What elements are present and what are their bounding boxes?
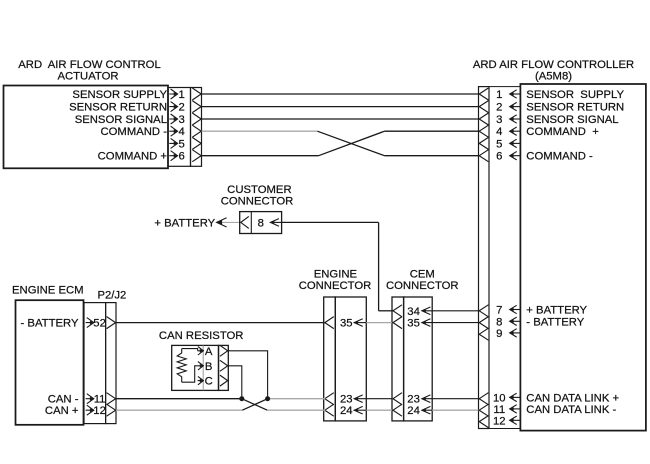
resistor pin A arrow — [198, 347, 204, 355]
CEM pin 34 arrow (tail to controller) — [422, 310, 479, 312]
svg-text:SENSOR SIGNAL: SENSOR SIGNAL — [75, 114, 167, 126]
controller pin 3 arrow — [510, 118, 520, 120]
svg-text:CAN RESISTOR: CAN RESISTOR — [159, 330, 244, 342]
ECM pin-number cell — [84, 303, 106, 424]
actuator connector chevron cell — [191, 88, 202, 167]
resistor pin B arrow — [198, 362, 204, 370]
ECM pin 52 arrow — [86, 318, 94, 328]
actuator pin-number cell — [168, 88, 191, 167]
controller pin 7 chevron — [479, 305, 488, 317]
wire ECM11 CAN- to junction — [116, 398, 242, 400]
actuator body box — [4, 86, 169, 169]
svg-text:35: 35 — [407, 318, 420, 330]
svg-text:ENGINE ECM: ENGINE ECM — [12, 284, 84, 296]
svg-text:12: 12 — [93, 405, 106, 417]
svg-text:B: B — [205, 361, 213, 373]
controller pin 11 chevron — [479, 404, 488, 416]
svg-text:(A5M8): (A5M8) — [535, 70, 572, 82]
wire crossover diagonal down — [317, 131, 384, 156]
CEM pin 23 arrow (tail to controller) — [422, 398, 479, 400]
actuator pin 6 arrow — [169, 151, 177, 161]
controller pin 6 arrow — [510, 155, 520, 157]
wire ECM12 CAN+ (gray) — [116, 409, 242, 411]
svg-text:- BATTERY: - BATTERY — [526, 316, 584, 328]
controller pin 7 arrow — [510, 309, 520, 311]
svg-text:6: 6 — [496, 151, 502, 163]
wire to engine connector pin24 (gray) — [267, 409, 325, 411]
svg-text:12: 12 — [493, 415, 506, 427]
wire ECM52 - battery — [116, 322, 325, 324]
engine connector chevron cell — [324, 297, 336, 421]
svg-text:3: 3 — [496, 114, 502, 126]
svg-text:7: 7 — [496, 305, 502, 317]
CEM connector pin 35 chevron — [393, 317, 402, 329]
controller pin 2 chevron — [479, 101, 488, 113]
controller pin 5 arrow — [510, 142, 520, 144]
wire engine24 to CEM24 (gray) — [366, 409, 392, 411]
CAN resistor chevron cell — [219, 345, 229, 390]
arrow to + BATTERY label (gray tail) — [217, 221, 240, 223]
junction dot CAN node 1 — [239, 396, 244, 401]
customer pin 8 arrow — [270, 221, 281, 223]
svg-text:SENSOR RETURN: SENSOR RETURN — [526, 102, 624, 114]
ECM pin 12 chevron — [107, 404, 116, 416]
customer connector divider — [250, 212, 252, 234]
controller pin 1 chevron — [479, 88, 488, 100]
svg-text:11: 11 — [94, 394, 106, 406]
svg-text:P2/J2: P2/J2 — [97, 290, 126, 302]
actuator pin 3 chevron — [192, 113, 201, 125]
resistor pin C arrow — [198, 376, 204, 384]
svg-text:4: 4 — [496, 126, 502, 138]
wire CAN crossover diagonal down — [242, 399, 267, 411]
engine connector pin 35 arrow — [354, 322, 366, 324]
svg-text:COMMAND +: COMMAND + — [526, 126, 599, 138]
engine connector pin 24 arrow — [354, 409, 366, 411]
actuator pin 4 arrow — [169, 126, 177, 136]
CAN resistor body box — [172, 345, 219, 390]
svg-text:CONNECTOR: CONNECTOR — [299, 280, 372, 292]
actuator pin 3 arrow — [169, 114, 177, 124]
CEM pin 35 arrow (tail to controller) — [422, 322, 479, 324]
resistor pin B chevron — [220, 360, 228, 371]
svg-text:ARD AIR FLOW CONTROL: ARD AIR FLOW CONTROL — [18, 59, 160, 71]
svg-text:CEM: CEM — [410, 269, 435, 281]
engine connector pin 35 chevron — [325, 317, 334, 329]
controller pin 3 chevron — [479, 113, 488, 125]
resistor element zigzag — [177, 349, 186, 383]
resistor pin A chevron — [220, 345, 228, 356]
resistor pin C chevron — [220, 375, 228, 386]
svg-text:A: A — [205, 346, 213, 358]
actuator pin 2 chevron — [192, 101, 201, 113]
svg-text:11: 11 — [493, 404, 505, 416]
svg-text:COMMAND -: COMMAND - — [526, 151, 593, 163]
svg-text:6: 6 — [179, 151, 185, 163]
ECM pin 11 chevron — [107, 393, 116, 405]
controller pin 12 chevron — [479, 416, 488, 428]
svg-text:2: 2 — [496, 102, 502, 114]
wire customer pin8 vertical drop — [378, 222, 380, 310]
engine connector pin 23 arrow (tail to CEM) — [354, 398, 392, 400]
svg-text:+ BATTERY: + BATTERY — [154, 218, 215, 230]
svg-text:1: 1 — [496, 89, 502, 101]
svg-text:23: 23 — [407, 394, 420, 406]
svg-text:CONNECTOR: CONNECTOR — [386, 280, 459, 292]
controller pin 12 arrow — [510, 419, 520, 421]
controller pin 9 chevron — [479, 328, 488, 340]
controller body box — [520, 84, 646, 431]
wire pin2 sensor return — [202, 106, 479, 108]
engine connector number cell — [335, 297, 366, 421]
wire engine35 to CEM35 (gray) — [366, 322, 392, 324]
ECM body box — [16, 300, 84, 425]
svg-text:3: 3 — [179, 114, 185, 126]
svg-text:9: 9 — [496, 328, 502, 340]
svg-text:52: 52 — [93, 318, 106, 330]
svg-text:C: C — [205, 376, 213, 388]
controller pin 8 arrow — [510, 320, 520, 322]
CEM connector pin 34 chevron — [393, 305, 402, 317]
svg-text:SENSOR SUPPLY: SENSOR SUPPLY — [72, 89, 167, 101]
controller pin 5 chevron — [479, 137, 488, 149]
svg-text:CAN DATA LINK -: CAN DATA LINK - — [526, 404, 616, 416]
svg-text:ENGINE: ENGINE — [314, 269, 358, 281]
svg-text:2: 2 — [179, 102, 185, 114]
svg-text:5: 5 — [179, 138, 185, 150]
svg-text:10: 10 — [493, 392, 506, 404]
resistor bottom lead to pin B — [182, 366, 198, 382]
ECM pin 52 chevron — [107, 317, 116, 329]
svg-text:SENSOR SUPPLY: SENSOR SUPPLY — [526, 89, 624, 101]
controller pin 9 arrow — [510, 332, 520, 334]
wire crossover diagonal up — [319, 131, 385, 156]
wire junction to engine pin23 (gray) — [268, 398, 326, 400]
CAN resistor inner divider (gray) — [202, 345, 204, 390]
svg-text:ARD AIR FLOW CONTROLLER: ARD AIR FLOW CONTROLLER — [473, 59, 634, 71]
resistor top lead to pin A — [182, 349, 198, 351]
engine connector pin 24 chevron — [325, 404, 334, 416]
actuator pin 1 chevron — [192, 88, 201, 100]
junction dot CAN node 2 — [265, 396, 270, 401]
svg-text:1: 1 — [179, 89, 185, 101]
svg-text:34: 34 — [407, 306, 420, 318]
controller pin 11 arrow — [510, 408, 520, 410]
wire CAN crossover diagonal up — [242, 399, 267, 411]
actuator pin 4 chevron — [192, 125, 201, 137]
controller pin-number cell — [489, 87, 520, 429]
CEM pin 24 arrow — [422, 409, 432, 411]
svg-text:24: 24 — [340, 405, 353, 417]
ECM pin 12 arrow — [86, 405, 94, 415]
controller pin 4 chevron — [479, 125, 488, 137]
svg-text:CONNECTOR: CONNECTOR — [221, 195, 294, 207]
svg-text:COMMAND -: COMMAND - — [100, 126, 167, 138]
actuator pin 6 chevron — [192, 150, 201, 162]
svg-text:CAN DATA LINK +: CAN DATA LINK + — [526, 392, 619, 404]
svg-text:COMMAND +: COMMAND + — [98, 151, 168, 163]
customer connector box — [240, 212, 282, 234]
svg-text:8: 8 — [496, 316, 502, 328]
svg-text:CAN +: CAN + — [45, 405, 79, 417]
ECM pin 11 arrow — [86, 394, 94, 404]
wire resistor B down to CAN node — [228, 366, 242, 399]
svg-text:SENSOR SIGNAL: SENSOR SIGNAL — [526, 114, 618, 126]
wire CEM24 to controller 11 (gray) — [432, 409, 478, 411]
customer pin 8 chevron — [241, 216, 249, 228]
controller pin 10 arrow — [510, 396, 520, 398]
wire pin4 command- left segment (gray) — [202, 130, 318, 132]
wire resistor A down to CAN node — [228, 351, 267, 399]
svg-text:ACTUATOR: ACTUATOR — [57, 71, 118, 83]
CEM connector pin 23 chevron — [393, 393, 402, 405]
controller pin 10 chevron — [479, 393, 488, 405]
wire pin6 command+ left segment — [202, 155, 319, 157]
svg-text:24: 24 — [407, 405, 420, 417]
engine connector pin 23 chevron — [325, 393, 334, 405]
controller pin 1 arrow — [510, 93, 520, 95]
svg-text:SENSOR RETURN: SENSOR RETURN — [69, 102, 167, 114]
controller pin 2 arrow — [510, 106, 520, 108]
svg-text:- BATTERY: - BATTERY — [21, 318, 79, 330]
ECM chevron cell — [106, 303, 116, 424]
controller pin 6 chevron — [479, 150, 488, 162]
actuator pin 5 chevron — [192, 137, 201, 149]
wire into controller pin4 — [385, 130, 479, 132]
controller chevron cell — [479, 87, 490, 429]
controller pin 8 chevron — [479, 317, 488, 329]
svg-text:23: 23 — [340, 394, 353, 406]
CEM connector chevron cell — [392, 297, 404, 421]
actuator pin 5 arrow — [169, 138, 177, 148]
wire customer pin8 horizontal — [282, 221, 379, 223]
svg-text:5: 5 — [496, 138, 502, 150]
svg-text:+ BATTERY: + BATTERY — [526, 305, 587, 317]
svg-text:4: 4 — [179, 126, 185, 138]
wire pin1 sensor supply — [202, 93, 479, 95]
actuator pin 2 arrow — [169, 102, 177, 112]
actuator pin 1 arrow — [169, 89, 177, 99]
CEM connector pin 24 chevron — [393, 404, 402, 416]
wire into controller pin6 — [385, 155, 479, 157]
CEM connector number cell — [404, 297, 433, 421]
svg-text:35: 35 — [340, 318, 353, 330]
svg-text:CUSTOMER: CUSTOMER — [227, 184, 291, 196]
wire pin3 sensor signal — [202, 118, 479, 120]
wire into CEM pin34 — [379, 310, 394, 312]
svg-text:8: 8 — [258, 218, 264, 230]
svg-text:CAN -: CAN - — [48, 394, 79, 406]
controller pin 4 arrow — [510, 130, 520, 132]
